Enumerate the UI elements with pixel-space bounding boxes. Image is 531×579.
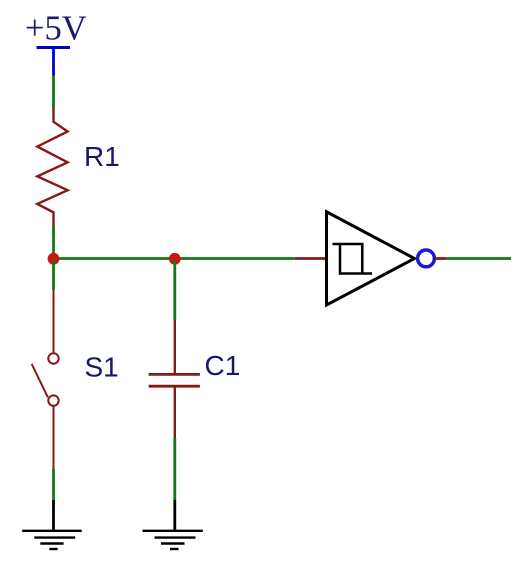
output wire (446, 257, 511, 260)
S1 bottom pin (53, 407, 55, 470)
C1 bottom plate (149, 385, 200, 388)
resistor R1 (37, 108, 67, 226)
ground 1 bar 1 (22, 530, 81, 532)
ground 2 bar 2 (155, 536, 196, 538)
ground 1 bar 4 (49, 548, 57, 550)
ground 2 stem (173, 500, 176, 531)
svg-text:C1: C1 (205, 350, 241, 381)
inverter U1 triangle (327, 212, 415, 305)
svg-text:+5V: +5V (25, 10, 87, 48)
ground 2 bar 3 (161, 542, 185, 544)
ground 1 bar 3 (40, 542, 63, 544)
C1 bottom lead (174, 388, 176, 439)
main horizontal wire (54, 257, 295, 260)
node B (junction dot) (169, 253, 181, 265)
wire S1 to ground (52, 469, 55, 500)
power symbol +5V bar (37, 46, 71, 49)
hysteresis symbol (333, 244, 373, 274)
wire C1 to ground (173, 438, 176, 500)
ground 1 stem (52, 500, 55, 531)
inverter U1 output pin (435, 257, 447, 260)
wire node B down to C1 (173, 259, 176, 320)
ground 2 bar 1 (143, 530, 203, 532)
ground 1 bar 2 (34, 536, 75, 538)
C1 top plate (149, 373, 200, 376)
wire power to R1 (52, 76, 55, 109)
S1 top pin (53, 290, 55, 353)
power symbol stem (52, 46, 55, 76)
S1 lever (32, 364, 48, 397)
wire node A down to S1 (52, 259, 55, 290)
svg-text:R1: R1 (84, 141, 120, 172)
inverter U1 input pin (295, 257, 326, 260)
S1 bottom contact (48, 395, 58, 405)
S1 top contact (48, 353, 58, 363)
node A (junction dot) (48, 253, 60, 265)
C1 top lead (174, 320, 176, 373)
inverter output bubble (418, 250, 435, 267)
wire R1 to node A (52, 226, 55, 259)
ground 2 bar 4 (170, 548, 179, 550)
svg-text:S1: S1 (85, 352, 119, 383)
